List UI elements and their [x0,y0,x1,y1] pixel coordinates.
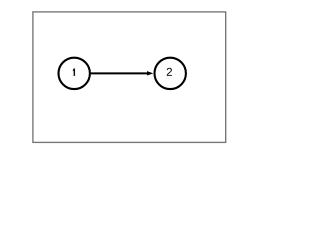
node 1 circle [58,58,89,89]
node 1 label "1" [73,69,75,76]
node 2 circle [155,58,186,89]
node 2 label "2" [167,68,172,76]
wire edge 1->2 [91,72,151,74]
frame border [33,12,226,143]
arrowhead into node 2 [147,71,153,75]
